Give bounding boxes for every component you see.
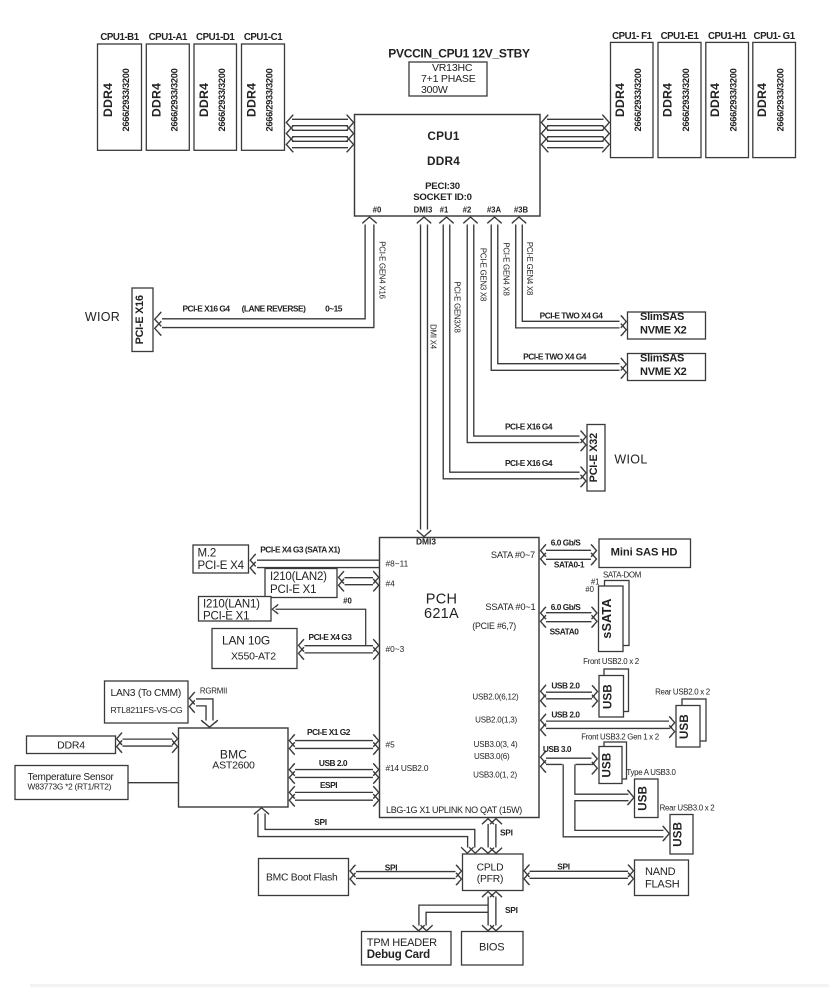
svg-text:USB3.0(1, 2): USB3.0(1, 2) [473, 771, 517, 780]
svg-text:2666/2933/3200: 2666/2933/3200 [121, 68, 131, 131]
wire PCH #4 to I210(LAN2) PCI-E X1 [339, 571, 379, 591]
SlimSAS upper text [640, 311, 687, 337]
wire CPU1 right DDR4 channel 1 [541, 115, 609, 131]
svg-text:PCI-E X16 G4: PCI-E X16 G4 [182, 304, 230, 314]
label SATA0-1 [554, 559, 585, 569]
LAN3 box text [111, 688, 183, 715]
PCH label USB3.0(1, 2) [473, 771, 517, 780]
svg-text:USB: USB [673, 822, 685, 847]
svg-text:X550-AT2: X550-AT2 [231, 651, 276, 663]
label 6.0 Gb/S (SATA) [551, 537, 582, 547]
svg-text:DDR4: DDR4 [197, 83, 211, 117]
svg-text:NVME X2: NVME X2 [640, 366, 687, 378]
NAND FLASH box [635, 860, 689, 896]
label USB 2.0 (BMC) [319, 758, 348, 768]
svg-text:6.0 Gb/S: 6.0 Gb/S [551, 602, 582, 612]
Rear USB3.0 box text [673, 822, 685, 847]
svg-text:SlimSAS: SlimSAS [640, 352, 684, 364]
wire LAN3 to BMC (RGRMII) [189, 692, 218, 727]
svg-text:#4: #4 [386, 579, 396, 589]
svg-text:PCI-E X4 G3 (SATA X1): PCI-E X4 G3 (SATA X1) [260, 544, 340, 554]
svg-text:#1: #1 [440, 206, 449, 215]
DDR4 text in CPU1- G1 [755, 68, 786, 131]
svg-text:Front USB3.2 Gen 1 x 2: Front USB3.2 Gen 1 x 2 [581, 733, 659, 742]
svg-text:LAN3 (To CMM): LAN3 (To CMM) [111, 688, 182, 699]
svg-text:(LANE REVERSE): (LANE REVERSE) [242, 304, 306, 314]
label Rear USB3.0 x 2 [660, 803, 715, 812]
svg-text:USB3.0(6): USB3.0(6) [474, 752, 510, 761]
wire CPU1 DMI3 to PCH (DMI X4) [417, 217, 431, 537]
svg-text:SPI: SPI [500, 828, 513, 838]
svg-text:CPU1: CPU1 [427, 129, 460, 143]
wire BMC to CPLD (SPI) [254, 808, 482, 853]
label CPU1-C1 [244, 32, 283, 43]
wire CPU1 right DDR4 channel 2 [541, 126, 609, 142]
svg-text:2666/2933/3200: 2666/2933/3200 [729, 68, 739, 131]
label PCI-E TWO X4 G4 lower [523, 352, 587, 362]
label SPI (BMC Boot Flash) [385, 863, 398, 873]
svg-text:USB 2.0: USB 2.0 [551, 680, 580, 690]
svg-text:#5: #5 [386, 740, 396, 750]
VR13HC voltage regulator box [409, 62, 487, 96]
svg-text:PCI-E GEN4 X8: PCI-E GEN4 X8 [525, 242, 534, 295]
svg-text:PCI-E X1: PCI-E X1 [203, 611, 249, 623]
svg-text:DMI3: DMI3 [416, 537, 436, 547]
LAN 10G X550-AT2 box [212, 629, 297, 669]
label PCI-E GEN4 X8 (#3B wire) [525, 242, 534, 295]
label PCI-E GEN4 X8 (#3A wire) [502, 242, 511, 295]
SlimSAS lower text [640, 352, 687, 378]
DIMM slot CPU1-H1 [706, 42, 749, 157]
wire CPU1 port #2 to WIOL PCI-E X32 (PCI-E GEN3 X8) [463, 217, 586, 451]
wire CPU1 left DDR4 channel 1 [286, 115, 353, 131]
svg-text:LAN 10G: LAN 10G [222, 634, 270, 648]
Front USB3.2 box text [602, 753, 614, 778]
BIOS box text [479, 942, 505, 954]
BMC DDR4 box [27, 736, 116, 754]
svg-text:BIOS: BIOS [479, 942, 505, 954]
DDR4 text in CPU1-B1 [101, 68, 131, 131]
svg-text:CPU1-H1: CPU1-H1 [708, 31, 747, 42]
svg-text:I210(LAN2): I210(LAN2) [270, 571, 327, 583]
label Rear USB2.0 x 2 [655, 687, 710, 696]
Front USB2.0 box text [603, 684, 615, 709]
label 6.0 Gb/S (SSATA) [551, 602, 582, 612]
svg-text:DDR4: DDR4 [708, 83, 722, 117]
LAN 10G box text [222, 634, 276, 663]
svg-text:DDR4: DDR4 [149, 83, 163, 117]
svg-text:SATA-DOM: SATA-DOM [603, 571, 641, 580]
DIMM slot CPU1-A1 [146, 44, 189, 150]
svg-text:#0: #0 [373, 206, 382, 215]
CPU1 box text [413, 129, 472, 203]
label SPI (NAND) [557, 861, 570, 871]
PCH label DMI3 [416, 537, 436, 547]
CPU1 box [355, 115, 541, 217]
label CPU1-B1 [100, 32, 139, 43]
label USB 2.0 (front) [551, 680, 580, 690]
label WIOL [614, 453, 647, 467]
label ESPI [320, 780, 337, 790]
M.2 PCI-E X4 box [193, 545, 249, 573]
svg-text:CPU1-C1: CPU1-C1 [244, 32, 283, 43]
svg-text:#8~11: #8~11 [386, 559, 409, 569]
label SSATA0 [550, 626, 580, 636]
label #0 (SATA-DOM) [585, 585, 594, 594]
svg-text:NVME X2: NVME X2 [640, 325, 687, 337]
PCH label LBG-1G X1 UPLINK NO QAT (15W) [386, 805, 522, 815]
wire CPLD to NAND FLASH (SPI) [524, 865, 634, 885]
Front USB2.0 back box [604, 669, 629, 712]
wire BMC to PCH #14 (USB 2.0) [289, 763, 378, 783]
wire PCH USB2.0(6,12) to Front USB2.0 x 2 (USB 2.0) [541, 685, 598, 707]
label #1 (SATA-DOM) [591, 578, 600, 587]
Type A USB3.0 box text [637, 786, 649, 811]
PCH label #5 [386, 740, 396, 750]
svg-text:RGRMII: RGRMII [200, 686, 227, 695]
Mini SAS HD box [599, 539, 691, 568]
Front USB2.0 front box [599, 676, 624, 718]
TPM HEADER box text [367, 937, 437, 961]
label #0 wire [343, 597, 352, 606]
PCH box title [424, 592, 459, 622]
svg-text:PCI-E GEN3 X8: PCI-E GEN3 X8 [479, 248, 488, 301]
PCH label #0~3 [386, 644, 405, 654]
PCH label SATA #0~7 [491, 550, 535, 560]
sSATA back box #1 [605, 581, 630, 646]
svg-text:W83773G *2 (RT1/RT2): W83773G *2 (RT1/RT2) [28, 782, 112, 792]
wire PCH USB2.0(1,3) to Rear USB2.0 x 2 (USB 2.0) [541, 714, 675, 738]
PCH label SSATA #0~1 [485, 602, 535, 612]
label Front USB3.2 Gen 1 x 2 [581, 733, 659, 742]
sSATA box text [600, 598, 614, 638]
svg-text:PVCCIN_CPU1 12V_STBY: PVCCIN_CPU1 12V_STBY [388, 47, 530, 61]
SlimSAS NVME X2 upper box [628, 312, 706, 339]
svg-text:USB 2.0: USB 2.0 [551, 709, 580, 719]
WIOL box text [588, 433, 600, 482]
svg-text:Type A USB3.0: Type A USB3.0 [626, 768, 676, 777]
svg-text:SATA #0~7: SATA #0~7 [491, 550, 535, 560]
svg-text:PCI-E X32: PCI-E X32 [588, 433, 600, 482]
svg-text:2666/2933/3200: 2666/2933/3200 [217, 68, 227, 131]
svg-text:2666/2933/3200: 2666/2933/3200 [633, 68, 643, 131]
label PCI-E X16 G4 upper (WIOL) [505, 422, 553, 432]
WIOL PCI-E X32 slot box [587, 425, 605, 492]
svg-text:CPU1-B1: CPU1-B1 [100, 32, 139, 43]
DDR4 text in CPU1-E1 [661, 68, 692, 131]
label PCI-E X4 G3 (SATA X1) [260, 544, 340, 554]
label CPU1- F1 [612, 31, 653, 42]
PCH label #8~11 [386, 559, 409, 569]
Rear USB2.0 box text [679, 714, 691, 739]
svg-text:SATA0-1: SATA0-1 [554, 559, 585, 569]
PCH 621A box [380, 538, 540, 818]
svg-text:USB: USB [679, 714, 691, 739]
PCH label USB2.0(1,3) [475, 716, 517, 725]
svg-text:PCI-E X4 G3: PCI-E X4 G3 [309, 632, 353, 642]
svg-text:PCI-E GEN3X8: PCI-E GEN3X8 [453, 281, 462, 332]
BMC Boot Flash box text [266, 873, 338, 884]
wire CPU1 port #1 to WIOL PCI-E X32 (PCI-E GEN3X8) [439, 217, 586, 487]
label PVCCIN_CPU1 12V_STBY [388, 47, 530, 61]
svg-text:#3B: #3B [514, 206, 529, 215]
svg-text:0~15: 0~15 [325, 304, 343, 314]
svg-text:SPI: SPI [314, 817, 327, 827]
svg-text:CPU1- G1: CPU1- G1 [754, 31, 796, 42]
svg-text:#0: #0 [585, 585, 594, 594]
svg-text:DMI X4: DMI X4 [429, 324, 438, 350]
svg-text:(PCIE #6,7): (PCIE #6,7) [472, 621, 516, 631]
label PCI-E GEN3 X8 (#2 wire) [479, 248, 488, 301]
TPM HEADER Debug Card box [362, 932, 452, 966]
svg-text:LBG-1G X1 UPLINK NO QAT (15W): LBG-1G X1 UPLINK NO QAT (15W) [386, 805, 522, 815]
DIMM slot CPU1- F1 [611, 42, 654, 157]
label SPI (PCH to CPLD) [500, 828, 513, 838]
label DMI X4 [429, 324, 438, 350]
svg-text:CPU1-A1: CPU1-A1 [149, 32, 188, 43]
svg-text:USB: USB [602, 753, 614, 778]
svg-text:DDR4: DDR4 [661, 83, 675, 117]
DDR4 text in CPU1-C1 [245, 68, 275, 131]
label PCI-E X16 G4 lower (WIOL) [505, 458, 553, 468]
label PCI-E GEN3X8 (#1 wire) [453, 281, 462, 332]
BMC box text [212, 748, 255, 772]
SlimSAS NVME X2 lower box [628, 354, 706, 381]
Type A USB3.0 box [635, 779, 659, 818]
label USB 2.0 (rear) [551, 709, 580, 719]
svg-text:WIOR: WIOR [85, 310, 120, 324]
CPU1 port labels [373, 206, 529, 215]
svg-text:PCI-E GEN4 X8: PCI-E GEN4 X8 [502, 242, 511, 295]
wire PCH #8~11 to M.2 (PCI-E X4 G3 SATA X1) [250, 554, 379, 574]
wire PCH to CPLD (SPI) [482, 819, 502, 854]
svg-text:AST2600: AST2600 [212, 760, 255, 772]
svg-text:RTL8211FS-VS-CG: RTL8211FS-VS-CG [111, 705, 183, 715]
svg-text:ESPI: ESPI [320, 780, 337, 790]
svg-text:Rear USB3.0 x 2: Rear USB3.0 x 2 [660, 803, 715, 812]
PCH label #4 [386, 579, 396, 589]
DDR4 text in CPU1-H1 [708, 68, 739, 131]
wire CPLD to BIOS (SPI) [482, 892, 502, 931]
svg-text:6.0 Gb/S: 6.0 Gb/S [551, 537, 582, 547]
wire PCH SSATA #0~1 to sSATA (6.0 Gb/S, SSATA0) [541, 607, 598, 628]
svg-text:sSATA: sSATA [600, 598, 614, 638]
wire BMC to PCH #5 (PCI-E X1 G2) [289, 734, 378, 754]
svg-text:WIOL: WIOL [614, 453, 647, 467]
DDR4 text in CPU1-D1 [197, 68, 227, 131]
svg-text:SPI: SPI [505, 905, 518, 915]
Front USB3.2 back box [604, 742, 627, 779]
wire PCH SATA #0~7 to Mini SAS HD (6.0 Gb/S, SATA0-1) [541, 544, 597, 565]
svg-text:#0: #0 [343, 597, 352, 606]
DIMM slot CPU1-E1 [658, 42, 701, 157]
BMC AST2600 box [179, 728, 289, 807]
svg-text:SOCKET ID:0: SOCKET ID:0 [413, 192, 472, 203]
wire BMC to PCH (ESPI) [289, 786, 378, 806]
wire CPU1 port #3A to SlimSAS NVME X2 lower (PCI-E GEN4 X8, PCI-E TWO X4 G4) [487, 217, 626, 379]
svg-text:#0~3: #0~3 [386, 644, 405, 654]
svg-text:DDR4: DDR4 [427, 154, 460, 168]
svg-text:CPU1-D1: CPU1-D1 [196, 32, 235, 43]
label SPI (BIOS) [505, 905, 518, 915]
label PCI-E X4 G3 [309, 632, 353, 642]
I210(LAN2) box [265, 569, 337, 598]
svg-text:#2: #2 [463, 206, 472, 215]
svg-text:SlimSAS: SlimSAS [640, 311, 684, 323]
wire CPU1 left DDR4 channel 2 [286, 126, 353, 142]
NAND FLASH box text [645, 866, 680, 891]
svg-text:Mini SAS HD: Mini SAS HD [611, 546, 678, 558]
svg-text:PECI:30: PECI:30 [425, 181, 460, 192]
wire USB3.0 branch to Type A USB3.0 and Rear USB3.0 x 2 [563, 764, 669, 841]
svg-text:Debug Card: Debug Card [367, 949, 430, 961]
label WIOR [85, 310, 120, 324]
svg-text:CPLD: CPLD [477, 863, 504, 874]
DIMM slot CPU1-B1 [98, 44, 142, 150]
DDR4 text in CPU1- F1 [613, 68, 643, 131]
BIOS box [462, 932, 524, 966]
M.2 box text [198, 548, 245, 573]
DIMM slot CPU1-C1 [242, 44, 285, 150]
svg-text:USB: USB [637, 786, 649, 811]
CPLD box text [477, 863, 504, 885]
I210(LAN1) box text [203, 599, 260, 623]
Rear USB2.0 front box [676, 706, 700, 748]
wire BMC Boot Flash to CPLD (SPI) [350, 865, 462, 885]
label Type A USB3.0 [626, 768, 676, 777]
svg-text:CPU1-E1: CPU1-E1 [661, 31, 700, 42]
svg-text:PCI-E GEN4 X16: PCI-E GEN4 X16 [378, 241, 387, 298]
LAN3 (To CMM) RTL8211FS-VS-CG box [105, 681, 189, 723]
wire CPLD to TPM HEADER Debug Card (SPI branch) [413, 909, 492, 931]
svg-text:Front USB2.0 x 2: Front USB2.0 x 2 [583, 657, 639, 666]
svg-text:TPM HEADER: TPM HEADER [367, 937, 437, 949]
svg-text:PCI-E TWO X4 G4: PCI-E TWO X4 G4 [523, 352, 587, 362]
svg-text:#14 USB2.0: #14 USB2.0 [386, 763, 429, 773]
PCH label (PCIE #6,7) [472, 621, 516, 631]
svg-text:USB3.0(3, 4): USB3.0(3, 4) [474, 740, 518, 749]
svg-text:SPI: SPI [557, 861, 570, 871]
svg-text:2666/2933/3200: 2666/2933/3200 [776, 68, 786, 131]
svg-text:300W: 300W [421, 84, 448, 96]
wire Temperature Sensor to BMC (plain line) [128, 782, 179, 784]
PCH label USB3.0(6) [474, 752, 510, 761]
wire PCH #0~3 to LAN 10G X550-AT2 (PCI-E X4 G3) [299, 639, 379, 659]
wire CPU1 left DDR4 channel 3 [286, 137, 353, 153]
svg-text:(PFR): (PFR) [477, 874, 503, 885]
svg-text:PCI-E X4: PCI-E X4 [198, 560, 245, 572]
svg-text:USB2.0(6,12): USB2.0(6,12) [472, 693, 519, 702]
PCH label USB3.0(3, 4) [474, 740, 518, 749]
svg-text:PCI-E X16 G4: PCI-E X16 G4 [505, 458, 553, 468]
BMC Boot Flash box [259, 859, 349, 896]
PCH label #14 USB2.0 [386, 763, 429, 773]
svg-text:DDR4: DDR4 [57, 740, 85, 752]
Rear USB2.0 back box [682, 699, 706, 741]
VR13HC text [421, 62, 476, 96]
PCH label USB2.0(6,12) [472, 693, 519, 702]
svg-text:BMC Boot Flash: BMC Boot Flash [266, 873, 338, 884]
svg-text:PCI-E X16 G4: PCI-E X16 G4 [505, 422, 553, 432]
CPLD (PFR) box [463, 854, 524, 891]
label PCI-E GEN4 X16 (#0 wire) [378, 241, 387, 298]
WIOR box text [134, 295, 146, 344]
wire CPU1 port #0 to WIOR PCI-E X16 (PCI-E GEN4 X16, lane reverse) [155, 217, 377, 336]
svg-text:SSATA0: SSATA0 [550, 626, 580, 636]
svg-text:DDR4: DDR4 [755, 83, 769, 117]
svg-text:USB 2.0: USB 2.0 [319, 758, 348, 768]
label PCI-E TWO X4 G4 upper [540, 310, 604, 320]
svg-text:DDR4: DDR4 [101, 83, 115, 117]
label SPI (BMC to CPLD) [314, 817, 327, 827]
svg-text:2666/2933/3200: 2666/2933/3200 [265, 68, 275, 131]
svg-text:SSATA #0~1: SSATA #0~1 [485, 602, 535, 612]
label CPU1-E1 [661, 31, 700, 42]
Front USB3.2 front box [599, 747, 622, 784]
label CPU1- G1 [754, 31, 796, 42]
Temperature Sensor box text [28, 772, 115, 792]
svg-text:PCI-E X16: PCI-E X16 [134, 295, 146, 344]
wire CPU1 right DDR4 channel 3 [541, 137, 609, 153]
wire CPU1 port #3B to SlimSAS NVME X2 upper (PCI-E GEN4 X8, PCI-E TWO X4 G4) [512, 217, 627, 336]
BMC DDR4 box text [57, 740, 85, 752]
svg-text:USB 3.0: USB 3.0 [543, 744, 572, 754]
label USB 3.0 [543, 744, 572, 754]
svg-text:2666/2933/3200: 2666/2933/3200 [169, 68, 179, 131]
I210(LAN2) box text [270, 571, 327, 596]
svg-text:Rear USB2.0 x 2: Rear USB2.0 x 2 [655, 687, 710, 696]
label RGRMII [200, 686, 227, 695]
label SATA-DOM [603, 571, 641, 580]
svg-text:M.2: M.2 [198, 548, 217, 560]
Temperature Sensor box [15, 766, 128, 800]
svg-text:PCI-E TWO X4 G4: PCI-E TWO X4 G4 [540, 310, 604, 320]
Rear USB3.0 box [670, 815, 693, 855]
svg-text:USB: USB [603, 684, 615, 709]
wire BMC to its DDR4 [117, 733, 178, 753]
WIOR PCI-E X16 slot box [132, 288, 153, 352]
label Front USB2.0 x 2 [583, 657, 639, 666]
label CPU1-D1 [196, 32, 235, 43]
svg-text:DDR4: DDR4 [245, 83, 259, 117]
svg-text:SPI: SPI [385, 863, 398, 873]
svg-text:FLASH: FLASH [645, 879, 680, 891]
label PCI-E X16 G4 lane reverse row [182, 304, 342, 314]
svg-text:DDR4: DDR4 [613, 83, 627, 117]
label PCI-E X1 G2 [307, 727, 351, 737]
DDR4 text in CPU1-A1 [149, 68, 179, 131]
svg-text:I210(LAN1): I210(LAN1) [203, 599, 260, 611]
svg-text:USB2.0(1,3): USB2.0(1,3) [475, 716, 517, 725]
svg-text:2666/2933/3200: 2666/2933/3200 [681, 68, 691, 131]
svg-text:DMI3: DMI3 [414, 206, 433, 215]
svg-text:CPU1- F1: CPU1- F1 [612, 31, 653, 42]
I210(LAN1) box [199, 597, 272, 622]
svg-text:#3A: #3A [487, 206, 502, 215]
DIMM slot CPU1-D1 [194, 44, 237, 150]
wire PCH lane #0 to I210(LAN1) (single line) [272, 604, 366, 647]
sSATA front box #0 [599, 586, 624, 652]
svg-text:NAND: NAND [645, 866, 676, 878]
label CPU1-A1 [149, 32, 188, 43]
Mini SAS HD box text [611, 546, 678, 558]
label CPU1-H1 [708, 31, 747, 42]
svg-text:PCI-E X1 G2: PCI-E X1 G2 [307, 727, 351, 737]
wire PCH USB3.0 to Front USB3.2 Gen 1 x 2 (USB 3.0) [541, 751, 598, 774]
svg-text:PCI-E X1: PCI-E X1 [270, 584, 316, 596]
svg-text:621A: 621A [424, 606, 459, 622]
DIMM slot CPU1- G1 [753, 42, 796, 157]
